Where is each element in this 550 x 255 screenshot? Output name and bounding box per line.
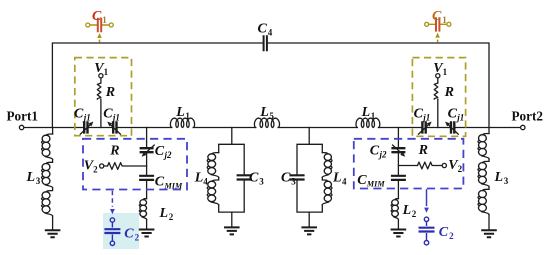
svg-text:R: R <box>418 143 428 158</box>
svg-text:1: 1 <box>185 111 190 121</box>
terminal circle V1 right <box>436 74 440 78</box>
inductor L3 (right) group2 <box>478 159 489 187</box>
wire: tank1 ground stem <box>231 212 233 226</box>
svg-text:C: C <box>258 21 268 36</box>
svg-text:2: 2 <box>412 209 417 219</box>
ground (L2 right) <box>391 230 407 237</box>
capacitor C1 (left, orange) <box>86 18 113 32</box>
svg-text:1: 1 <box>104 67 109 77</box>
resistor R (right V2, horizontal) <box>418 162 433 169</box>
svg-text:1: 1 <box>442 15 447 25</box>
svg-text:j2: j2 <box>163 150 173 160</box>
wire: main line Port1 to first varactor <box>24 127 84 129</box>
capacitor C3 (tank2) plates <box>289 175 304 179</box>
wire: tank2 top <box>297 144 322 174</box>
svg-text:L: L <box>194 171 204 186</box>
wire: L3 left to ground <box>52 216 54 229</box>
svg-text:3: 3 <box>259 177 264 187</box>
varactor Cj1 (left A) <box>80 121 93 134</box>
svg-text:C: C <box>370 144 380 159</box>
terminal circle V2 right <box>442 163 446 167</box>
svg-text:R: R <box>444 85 454 100</box>
resistor R (left V2, horizontal) <box>108 163 123 170</box>
varactor Cj1 (left B) <box>108 121 121 134</box>
resistor R (right bias, vertical) <box>434 83 438 100</box>
inductor L4 (tank2, lower group) <box>322 177 332 204</box>
capacitor C3 (tank1) plates <box>237 175 252 179</box>
terminal circle Port1 <box>19 125 23 129</box>
inductor L3 (left) group2 <box>42 159 53 187</box>
capacitor CMIM (right) plates <box>391 176 406 180</box>
svg-text:Port2: Port2 <box>512 108 544 123</box>
terminal circle V2 left <box>100 164 104 168</box>
svg-text:R: R <box>109 144 119 159</box>
inductor L1 (right) <box>356 118 380 127</box>
svg-text:1: 1 <box>102 15 107 25</box>
svg-text:j1: j1 <box>111 113 120 123</box>
wire: L1 to L5 <box>193 127 255 129</box>
ground (tank2) <box>301 227 317 234</box>
wire: tank1 bottom <box>219 181 245 212</box>
terminal circle Port2 <box>521 125 525 129</box>
svg-text:L: L <box>361 105 371 120</box>
svg-text:C: C <box>448 107 458 122</box>
svg-text:R: R <box>105 85 115 100</box>
ground (L2 left) <box>139 230 155 237</box>
svg-text:C: C <box>281 171 291 186</box>
varactor Cj1 (right A) <box>418 121 431 134</box>
svg-text:3: 3 <box>504 176 509 186</box>
varactor Cj2 (left) <box>140 145 155 157</box>
inductor L3 (left) group3 <box>42 188 53 216</box>
svg-text:C: C <box>124 227 134 242</box>
varactor Cj2 (right) <box>391 145 405 157</box>
wire: top coupling line right segment <box>267 43 489 128</box>
wire: right CMIM to L2 <box>397 180 399 198</box>
svg-text:C: C <box>92 9 102 24</box>
svg-text:4: 4 <box>268 27 273 37</box>
ground (tank1) <box>224 227 240 234</box>
capacitor C2 (right, blue) <box>419 217 435 245</box>
wire: left V2 resistor tail to branch <box>104 165 147 167</box>
svg-text:C: C <box>249 171 259 186</box>
svg-text:C: C <box>155 144 165 159</box>
tuning box (orange dashed, right) <box>412 58 465 137</box>
inductor L4 (tank1, lower group) <box>207 177 219 204</box>
svg-text:MIM: MIM <box>164 181 183 190</box>
svg-text:2: 2 <box>449 231 454 241</box>
ground (L3 right) <box>481 230 497 237</box>
terminal circle V1 left <box>99 74 103 78</box>
inductor L3 (right) group1 <box>488 128 490 134</box>
wire: L2 right to ground <box>397 220 399 228</box>
wire: tank2 ground stem <box>308 212 310 226</box>
svg-text:L: L <box>494 170 504 185</box>
svg-text:C: C <box>357 173 367 188</box>
inductor L2 (left) <box>139 199 146 220</box>
inductor L4 (tank2, upper group) <box>322 153 332 178</box>
svg-text:C: C <box>432 9 442 24</box>
capacitor C1 (right, orange) <box>425 17 451 31</box>
wire: left branch main to Cj2 <box>146 128 148 148</box>
svg-text:L: L <box>159 206 169 221</box>
wire: tank2 bottom <box>297 180 322 212</box>
wire: right Cj2 to CMIM junction <box>397 153 399 174</box>
tuning box (orange dashed, left) <box>75 58 132 136</box>
wire: left varactor pair to L1 <box>117 127 172 129</box>
wire: right V1 bias stem <box>437 78 439 128</box>
inductor L3 (right) group3 <box>478 187 489 215</box>
svg-text:C: C <box>74 107 84 122</box>
inductor L4 (tank1, upper group) <box>207 153 219 178</box>
svg-text:C: C <box>103 107 113 122</box>
wire: left CMIM to L2 <box>146 180 148 198</box>
svg-text:1: 1 <box>443 67 448 77</box>
varactor Cj1 (right B) <box>445 121 458 134</box>
svg-text:MIM: MIM <box>366 180 385 189</box>
wire: tank1 top <box>219 144 245 174</box>
wire: tank1 feed <box>231 128 233 145</box>
svg-text:3: 3 <box>36 176 41 186</box>
wire: between right Cj1 varactors <box>426 127 451 129</box>
annotation arrow to C2 left <box>110 191 115 215</box>
svg-text:j1: j1 <box>421 113 430 123</box>
svg-text:2: 2 <box>135 233 140 243</box>
inductor L1 (left) <box>170 118 194 127</box>
svg-text:2: 2 <box>458 164 463 174</box>
annotation arrow to C1 left <box>97 33 102 43</box>
svg-text:C: C <box>414 107 424 122</box>
svg-text:L: L <box>26 170 36 185</box>
svg-text:3: 3 <box>291 177 296 187</box>
wire: left V1 bias stem <box>100 78 102 128</box>
highlight behind C2 left <box>103 213 139 249</box>
annotation arrow to C2 right <box>424 189 429 213</box>
inductor L3 (left) group1 <box>52 128 54 135</box>
svg-text:C: C <box>155 175 165 190</box>
capacitor C4 plates <box>264 35 267 51</box>
ground (L3 left) <box>45 230 61 237</box>
svg-text:4: 4 <box>342 177 347 187</box>
svg-text:j2: j2 <box>378 150 388 160</box>
wire: left Cj2 to CMIM junction <box>146 153 148 174</box>
wire: top coupling line left segment <box>52 43 263 128</box>
svg-text:j1: j1 <box>455 113 464 123</box>
svg-text:2: 2 <box>169 212 174 222</box>
capacitor CMIM (left) plates <box>139 176 154 180</box>
capacitor C2 (left, blue) <box>104 218 120 246</box>
svg-text:5: 5 <box>269 111 274 121</box>
wire: between left Cj1 varactors <box>88 127 113 129</box>
wire: tank2 feed <box>308 128 310 145</box>
wire: right varactors to Port2 <box>455 127 521 129</box>
bias box (blue dashed, right) <box>354 139 464 189</box>
svg-text:L: L <box>402 203 412 218</box>
wire: L5 to right L1 <box>278 127 357 129</box>
svg-text:L: L <box>259 105 269 120</box>
svg-text:L: L <box>175 105 185 120</box>
annotation arrow to C1 right <box>435 33 440 43</box>
wire: L2 left to ground <box>146 220 148 229</box>
bias box (blue dashed, left) <box>83 139 187 190</box>
svg-text:j1: j1 <box>82 113 91 123</box>
wire: L3 right to ground <box>488 215 490 230</box>
resistor R (left bias, vertical) <box>97 83 101 100</box>
wire: right L1 to right varactor pair <box>379 127 423 129</box>
svg-text:1: 1 <box>371 111 376 121</box>
svg-text:Port1: Port1 <box>7 108 39 123</box>
svg-text:C: C <box>439 225 449 240</box>
wire: right branch main to Cj2 <box>397 128 399 148</box>
svg-text:2: 2 <box>93 165 98 175</box>
inductor L2 (right) <box>391 199 398 220</box>
svg-text:4: 4 <box>203 177 208 187</box>
wire: right V2 resistor tail to branch <box>398 165 442 167</box>
svg-text:L: L <box>332 171 342 186</box>
inductor L5 <box>254 118 279 127</box>
